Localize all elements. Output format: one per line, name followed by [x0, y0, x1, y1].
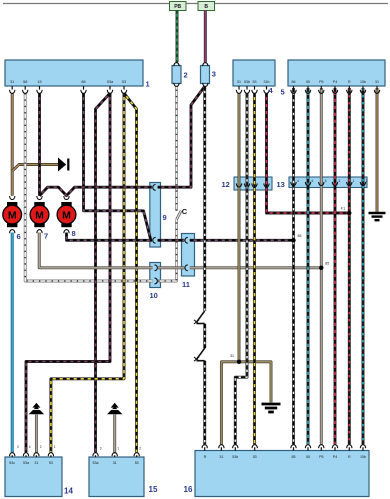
wire cyan motor 6 to unit 14: [11, 233, 14, 453]
svg-text:15: 15: [37, 80, 41, 84]
svg-text:53: 53: [135, 461, 139, 465]
svg-text:5: 5: [325, 179, 327, 183]
wire bridge motors 7-8 to unit 9: [40, 187, 153, 196]
top rail line: [3, 3, 388, 5]
connector forks under unit 4: [238, 86, 240, 90]
svg-text:F1: F1: [341, 207, 345, 211]
svg-text:P4: P4: [333, 80, 337, 84]
connector arcs fuse 2: [174, 63, 179, 67]
wire grey arrow to unit15 pin31: [113, 415, 116, 454]
svg-text:31: 31: [219, 455, 223, 459]
svg-text:31b: 31b: [264, 80, 270, 84]
svg-text:3: 3: [339, 179, 341, 183]
connector arcs motor 6: [10, 196, 15, 200]
svg-text:6: 6: [17, 232, 21, 241]
svg-text:1: 1: [353, 179, 355, 183]
connector forks above unit 15: [93, 453, 98, 457]
connector 9: [150, 183, 161, 248]
svg-text:85: 85: [292, 455, 296, 459]
wire fuse 3 down part 3: [203, 361, 206, 445]
svg-text:M: M: [62, 210, 71, 222]
svg-text:31: 31: [237, 80, 241, 84]
svg-text:B: B: [204, 4, 208, 10]
svg-text:6: 6: [312, 179, 314, 183]
arcs connector 10: [155, 265, 158, 271]
ground (middle): [262, 403, 281, 406]
arrow symbol above unit 14: [32, 403, 40, 408]
svg-text:15b: 15b: [360, 80, 366, 84]
switch S1: [196, 311, 204, 322]
svg-text:53: 53: [253, 80, 257, 84]
switch C: [177, 211, 182, 220]
svg-text:11: 11: [182, 280, 190, 289]
svg-text:58: 58: [23, 80, 27, 84]
arrow connection symbol: [58, 158, 66, 172]
unit 14 (wiper motor connector): [5, 457, 62, 497]
wire unit 9 to unit 11 top: [158, 239, 185, 242]
wire white unit 10 to switch C: [158, 220, 176, 282]
svg-text:5: 5: [281, 88, 285, 97]
svg-text:55: 55: [306, 455, 310, 459]
svg-text:31: 31: [113, 461, 117, 465]
forks strip 13: [291, 182, 296, 186]
unit 16 (mounting block): [195, 451, 369, 497]
connector forks above unit 14: [10, 453, 15, 457]
wire grey unit 10 to unit 11: [158, 266, 184, 269]
connector forks under unit 1: [11, 86, 13, 90]
svg-text:53a: 53a: [107, 80, 114, 84]
svg-text:14: 14: [64, 487, 73, 496]
svg-text:12: 12: [222, 180, 230, 189]
wire pin86 down to unit 9: [84, 93, 151, 239]
motor 8: [61, 202, 71, 206]
wire red-black 31b to F1: [267, 93, 350, 213]
svg-text:31: 31: [10, 80, 14, 84]
wire white pin58 to unit 10: [25, 93, 152, 281]
svg-text:53: 53: [49, 461, 53, 465]
svg-text:53a: 53a: [93, 461, 99, 465]
svg-text:53b: 53b: [232, 455, 238, 459]
wire tan to unit16-31: [221, 362, 239, 445]
wire grey arrow to unit14 pin31: [35, 415, 38, 454]
junction 31: [237, 360, 241, 364]
svg-text:86: 86: [292, 80, 296, 84]
wire yellow 53 to unit 15: [124, 93, 137, 452]
svg-text:16: 16: [184, 485, 193, 494]
unit 1 (stalk switch): [5, 60, 143, 86]
wire purple 53a to unit 14: [26, 93, 110, 452]
wire black-white 53b: [235, 93, 247, 444]
wire grey unit 11 to junction 85: [190, 266, 321, 269]
svg-text:15b: 15b: [360, 455, 366, 459]
fuse 2: [172, 66, 181, 84]
connector 10: [150, 263, 161, 288]
svg-text:13: 13: [277, 180, 285, 189]
junction 85 lower: [319, 266, 323, 270]
svg-text:53: 53: [122, 80, 126, 84]
connector arcs motor 7: [37, 196, 42, 200]
motor 7: [34, 202, 44, 206]
svg-text:85: 85: [325, 262, 329, 266]
wire P4 red-black: [334, 88, 337, 444]
wire fuse 3 down part 1: [203, 86, 206, 311]
connector 11: [182, 234, 195, 277]
unit 15 (washer pump connector): [89, 457, 144, 497]
wire brown unit5-31 to ground: [376, 88, 379, 212]
wire unit 9 to fuse 3: [158, 86, 205, 187]
connector strip 12: [234, 177, 272, 190]
junction F1: [347, 211, 351, 215]
wire tan to ground: [239, 362, 271, 403]
wire R black-red: [348, 88, 351, 444]
svg-text:10: 10: [150, 291, 158, 300]
svg-text:31: 31: [375, 80, 379, 84]
svg-text:P4: P4: [333, 455, 337, 459]
wire yellow unit4-53: [253, 93, 256, 444]
svg-text:R: R: [204, 455, 207, 459]
wire purple 53a to unit 15: [96, 93, 111, 452]
svg-text:C: C: [182, 207, 188, 216]
wire tan unit4-31 down: [238, 93, 241, 362]
wire fuse 3 down part 2: [203, 324, 206, 348]
svg-text:4: 4: [29, 445, 31, 449]
motor 6: [7, 202, 17, 206]
svg-text:53: 53: [253, 455, 257, 459]
wire yellow 53 to unit 14: [51, 93, 124, 452]
svg-text:2: 2: [366, 179, 368, 183]
forks strip 12: [236, 183, 241, 187]
ground (right): [369, 212, 386, 214]
wire white switch C to fuse 2: [175, 86, 178, 210]
svg-text:3: 3: [100, 446, 102, 450]
unit 5: [288, 60, 385, 86]
svg-text:2: 2: [40, 445, 42, 449]
wire brown branch to arrow: [12, 165, 58, 172]
svg-text:53b: 53b: [244, 80, 250, 84]
svg-text:R: R: [348, 80, 351, 84]
switch S2: [196, 348, 204, 359]
svg-text:9: 9: [163, 213, 167, 222]
wire grey motor 7 to unit 10: [39, 233, 152, 268]
wire 55 cyan-black: [307, 88, 310, 444]
relay box PB: [170, 2, 187, 11]
svg-text:M: M: [8, 210, 17, 222]
connector forks under unit 5: [293, 86, 295, 90]
svg-text:R: R: [348, 455, 351, 459]
svg-text:2: 2: [184, 71, 188, 80]
svg-text:31: 31: [34, 461, 38, 465]
wire unit 11 to junction 85: [190, 239, 294, 242]
svg-text:1: 1: [54, 445, 56, 449]
arrow symbol above unit 15: [111, 403, 119, 408]
svg-text:31: 31: [230, 354, 234, 358]
wire motor 8 bottom to unit 9: [67, 233, 153, 241]
wire violet B to fuse 3: [204, 11, 207, 63]
wire green PB to fuse 2: [176, 11, 179, 63]
svg-text:53c: 53c: [9, 461, 15, 465]
svg-text:55: 55: [306, 80, 310, 84]
wire 15b black-cyan: [362, 88, 365, 444]
wire 86 unit5 to unit16: [292, 88, 295, 444]
svg-text:3: 3: [17, 445, 19, 449]
svg-text:7: 7: [44, 231, 48, 240]
svg-text:4: 4: [297, 179, 299, 183]
connector arcs fuse 3: [203, 63, 208, 67]
fuse 3: [201, 66, 210, 84]
svg-text:PB: PB: [174, 4, 181, 10]
relay box B: [198, 2, 215, 11]
unit 4: [233, 60, 275, 86]
svg-text:1: 1: [146, 80, 150, 89]
svg-text:3: 3: [212, 70, 216, 79]
svg-text:8: 8: [72, 229, 76, 238]
svg-text:15: 15: [149, 485, 158, 494]
svg-text:2: 2: [139, 446, 141, 450]
connector arcs motor 8: [64, 196, 69, 200]
wire P5 grey: [320, 88, 323, 444]
connector strip 13: [289, 177, 367, 188]
arcs connector 11: [185, 237, 188, 243]
svg-text:53a: 53a: [23, 461, 29, 465]
svg-text:P5: P5: [319, 455, 323, 459]
connector forks above unit 16: [202, 445, 207, 449]
svg-text:P5: P5: [319, 80, 323, 84]
svg-text:M: M: [35, 210, 44, 222]
wire maroon pin15 to motor 7: [38, 93, 41, 196]
svg-text:1: 1: [117, 446, 119, 450]
arcs connector 9: [153, 185, 156, 191]
wire brown pin31 to motor 6: [11, 93, 14, 196]
svg-text:85: 85: [298, 234, 302, 238]
svg-text:86: 86: [81, 80, 85, 84]
junction 85 upper: [291, 238, 295, 242]
